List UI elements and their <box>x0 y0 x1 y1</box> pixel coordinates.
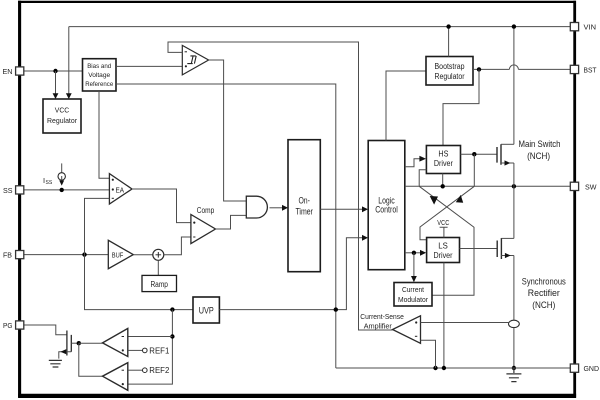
svg-text:On-: On- <box>298 196 310 206</box>
ground symbol at GND rail <box>506 368 521 382</box>
VCC supply stub above LS Driver <box>440 227 448 237</box>
op-amp U1 hysteretic comparator <box>182 45 208 75</box>
wire: FB junction down to UVP <box>85 255 194 310</box>
svg-text:SS: SS <box>46 180 53 186</box>
svg-text:Voltage: Voltage <box>88 72 110 79</box>
summer node <box>153 249 164 260</box>
svg-text:REF1: REF1 <box>149 346 170 355</box>
current sense element <box>509 320 520 327</box>
wire: Logic Control to LS Driver arrow <box>405 252 421 254</box>
arrow into VCC Regulator (left) <box>53 93 59 99</box>
wire: Bootstrap output to BST pin with hop <box>473 68 509 70</box>
ground symbol at PG transistor <box>49 360 62 367</box>
wire: CS amp + input from sense element <box>421 322 509 324</box>
wire and REF2 source <box>128 369 143 371</box>
wire: BST junction down to HS Driver top <box>443 69 479 145</box>
node: on SW run below HS Driver <box>441 184 445 188</box>
box: VCC Regulator <box>43 99 81 133</box>
svg-text:UVP: UVP <box>199 305 214 315</box>
wire: Bias bottom to EA + input <box>99 91 109 178</box>
svg-text:GND: GND <box>584 364 600 373</box>
svg-text:REF2: REF2 <box>149 366 170 375</box>
wire: Logic Control top to Bootstrap Regulator <box>386 71 426 141</box>
wire: summer output to Comp - input <box>164 237 191 255</box>
node: CS amp minus on GND rail <box>433 366 437 370</box>
wire: vertical from top rail to VCC Regulator <box>68 27 70 95</box>
svg-text:FB: FB <box>3 251 12 260</box>
op-amp current-sense amplifier <box>393 316 421 344</box>
svg-text:Modulator: Modulator <box>398 295 428 304</box>
transistor Q3 PG pull-down <box>24 325 67 335</box>
svg-text:Ramp: Ramp <box>150 280 168 289</box>
wire: SW horizontal run from Logic Control to SW pin <box>405 185 571 187</box>
box: Ramp <box>142 275 177 291</box>
wire: LS Driver bottom to GND rail <box>443 263 445 369</box>
wire: cross-coupling diagonal into LS Driver <box>420 186 474 239</box>
wire: HS Driver bottom to SW run <box>442 174 444 187</box>
svg-text:Regulator: Regulator <box>435 72 465 81</box>
op-amp EA error amplifier <box>109 174 132 204</box>
pin FB <box>16 251 24 259</box>
svg-text:Timer: Timer <box>295 207 313 217</box>
wire: BUF output to summer <box>133 254 153 256</box>
svg-text:Main Switch: Main Switch <box>519 138 561 149</box>
hysteresis symbol <box>187 56 196 64</box>
wire: hysteretic comparator top input loop from current-sense amp <box>168 42 393 330</box>
node: on GND rail <box>512 366 516 370</box>
svg-text:VCC: VCC <box>437 218 450 227</box>
box: Bootstrap Regulator <box>426 57 473 86</box>
transistor Q2 Synchronous Rectifier (NCH) <box>497 238 501 259</box>
svg-text:Regulator: Regulator <box>47 116 78 125</box>
node: SS junction <box>60 188 64 192</box>
svg-text:PG: PG <box>3 321 13 330</box>
wire: Main Switch source to SW node <box>513 163 515 186</box>
wire: junction down to comparator B output <box>79 343 103 376</box>
svg-text:VIN: VIN <box>584 23 597 32</box>
transistor Q1 Main Switch (NCH) <box>497 144 501 165</box>
box: Current Modulator <box>394 283 432 307</box>
wire: hysteretic comparator output down to AND gate <box>209 60 247 201</box>
wire: LS Driver output to Synchronous Rectifier gate <box>460 248 498 250</box>
svg-text:Current-Sense: Current-Sense <box>360 312 404 321</box>
wire: UVP input down to PG comparators <box>128 310 173 385</box>
pin EN <box>16 67 24 75</box>
current source Iss <box>61 163 63 172</box>
comparator A (REF1) <box>103 328 128 356</box>
svg-text:Control: Control <box>375 205 398 215</box>
svg-text:Driver: Driver <box>434 251 453 260</box>
wire: GND rail <box>336 367 571 369</box>
pin BST <box>570 65 578 73</box>
node: FB junction <box>82 252 86 256</box>
svg-text:EA: EA <box>116 185 125 194</box>
AND gate <box>246 196 267 218</box>
wire: cross-coupling diagonal to Current Modulator <box>419 186 474 295</box>
wire: EN junction down to VCC Regulator <box>55 71 57 95</box>
pin GND <box>570 364 578 372</box>
wire: AND output arrow into On-Timer <box>270 207 283 209</box>
node: BST junction <box>477 67 481 71</box>
wire: EA output to Comp <box>132 189 191 223</box>
arrow into VCC Regulator (right) <box>66 93 72 99</box>
wire: HS Driver lower-left pin down to SW run <box>419 170 426 187</box>
wire: to comparator A - input <box>128 336 173 338</box>
node: EN junction <box>53 69 57 73</box>
wire: Bias ref output to hysteretic comparator <box>116 65 182 67</box>
svg-text:Bias and: Bias and <box>87 63 111 70</box>
wire: On-Timer output arrow into Logic Control <box>320 208 362 210</box>
wire: SS pin to EA <box>24 189 110 191</box>
box: On-Timer <box>288 140 320 272</box>
svg-text:HS: HS <box>438 149 448 158</box>
box: Bias and Voltage Reference <box>83 59 117 91</box>
svg-text:LS: LS <box>438 241 448 250</box>
node: UVP input junction <box>170 307 174 311</box>
wire: CS amp - input to GND rail <box>421 340 436 368</box>
wire: HS output junction down to cross-coupling <box>473 154 475 186</box>
wire: VIN rail down to Main Switch drain <box>513 27 515 145</box>
wire: junction to comparator A output <box>79 342 103 344</box>
box: LS Driver <box>427 238 460 263</box>
wire: sense element to GND rail <box>513 328 515 368</box>
wire: Synchronous Rectifier source down to sense element <box>513 256 515 321</box>
svg-text:Reference: Reference <box>85 81 113 88</box>
wire: Ramp to summer <box>157 260 159 275</box>
wire: Synchronous Rectifier drain up to SW node <box>513 186 515 238</box>
node: LS bottom on GND rail <box>442 366 446 370</box>
wire: Logic Control to HS Driver arrow <box>405 159 420 167</box>
svg-text:(NCH): (NCH) <box>527 150 550 161</box>
svg-text:SS: SS <box>3 186 13 195</box>
svg-text:Bootstrap: Bootstrap <box>435 62 465 71</box>
wire: EN pin to Bias box <box>24 70 83 72</box>
node: junction on UVP output with Bias ground run <box>334 307 338 311</box>
op-amp Comp PWM comparator <box>191 215 216 244</box>
pin SS <box>16 186 24 194</box>
svg-text:Driver: Driver <box>434 159 453 168</box>
wire: Bootstrap top to VIN rail <box>448 27 450 57</box>
wire: Bias lower output long run to GND rail <box>116 84 336 368</box>
svg-text:EN: EN <box>3 67 13 76</box>
wire: UVP output to Logic Control second input <box>219 238 362 310</box>
node: LS input junction <box>412 251 416 255</box>
pin PG <box>16 321 24 329</box>
node: HS output junction <box>472 152 476 156</box>
wire: FB pin to BUF <box>24 254 109 256</box>
wire and REF1 source <box>128 349 143 351</box>
svg-text:BST: BST <box>584 65 597 74</box>
wire: FB junction up to EA - input <box>85 198 110 254</box>
svg-text:VCC: VCC <box>55 106 70 115</box>
node: SW node at switches <box>512 184 516 188</box>
svg-text:Comp: Comp <box>197 206 215 215</box>
pin VIN <box>570 23 578 31</box>
box: UVP <box>193 297 219 323</box>
box: Logic Control <box>368 141 405 270</box>
node: PG drain junction <box>77 341 81 345</box>
pin SW <box>570 182 578 190</box>
svg-text:Current: Current <box>402 285 424 294</box>
wire: top VIN rail <box>69 26 571 28</box>
svg-text:Amplifier: Amplifier <box>364 322 393 331</box>
svg-text:(NCH): (NCH) <box>532 299 555 310</box>
wire: Comp output to AND gate <box>216 215 247 229</box>
box: HS Driver <box>426 146 460 174</box>
svg-text:Synchronous: Synchronous <box>522 275 566 286</box>
wire: HS Driver output to Main Switch gate <box>461 153 498 155</box>
op-amp BUF buffer <box>108 240 133 268</box>
node: on VIN rail <box>446 24 450 28</box>
svg-text:Rectifier: Rectifier <box>528 287 560 298</box>
comparator B (REF2) <box>103 363 128 391</box>
wire: junction down arrow into Current Modulator <box>413 253 415 277</box>
svg-text:SW: SW <box>585 182 597 191</box>
svg-text:BUF: BUF <box>112 251 124 260</box>
